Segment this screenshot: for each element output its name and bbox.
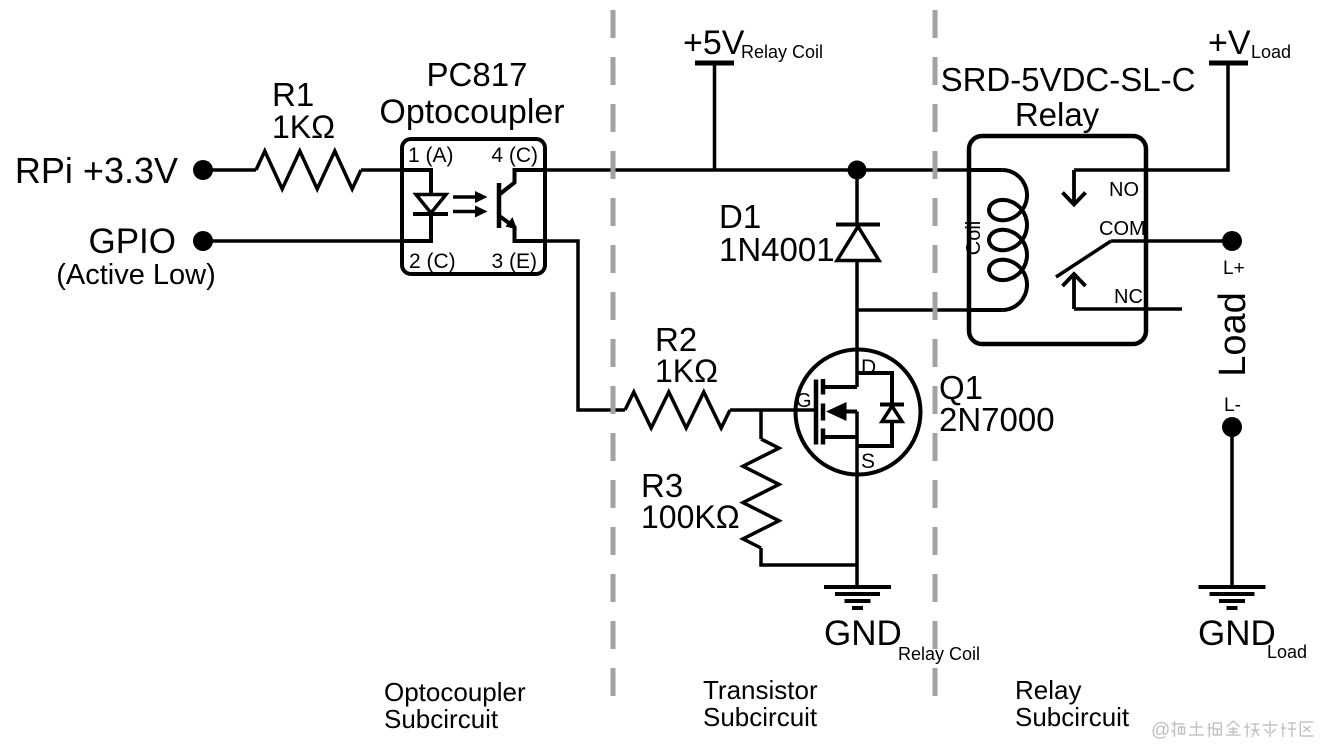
transistor Q1 drain stub (825, 385, 857, 389)
diode D1 1N4001 with labels (719, 198, 880, 268)
svg-text:100KΩ: 100KΩ (641, 499, 740, 535)
light emission arrow upper (453, 191, 488, 203)
svg-text:L+: L+ (1223, 258, 1245, 279)
svg-text:3 (E): 3 (E) (491, 250, 537, 273)
wire COM to L+ node (1111, 239, 1223, 243)
svg-text:SRD-5VDC-SL-C: SRD-5VDC-SL-C (941, 61, 1196, 98)
wire main rail optocoupler pin4 to relay coil (545, 168, 970, 172)
svg-text:R1: R1 (272, 76, 314, 113)
ground GND Load (1198, 587, 1307, 662)
svg-text:Optocoupler: Optocoupler (379, 93, 564, 131)
svg-text:Load: Load (1267, 642, 1307, 662)
svg-text:D: D (861, 356, 876, 379)
svg-text:1KΩ: 1KΩ (655, 353, 718, 389)
relay SRD-5VDC-SL-C title (941, 61, 1196, 133)
svg-text:RPi +3.3V: RPi +3.3V (15, 150, 178, 191)
svg-text:2 (C): 2 (C) (409, 250, 456, 273)
resistor R2 1KΩ with labels (625, 321, 730, 428)
relay K1 box (969, 136, 1146, 344)
power +V Load supply (1208, 24, 1291, 63)
op-amp U1 optocoupler PC817 box (402, 139, 545, 274)
transistor Q1 body diode (857, 373, 904, 446)
svg-text:@: @ (1151, 720, 1170, 741)
wire NO to box edge (1074, 168, 1146, 172)
svg-text:NO: NO (1109, 179, 1139, 201)
svg-text:4 (C): 4 (C) (491, 144, 538, 167)
wire NC stub (1074, 307, 1182, 311)
svg-text:GPIO: GPIO (88, 222, 176, 261)
svg-text:Load: Load (1251, 42, 1291, 62)
resistor R1 1KΩ with labels (256, 76, 361, 189)
svg-text:G: G (796, 390, 812, 412)
svg-text:GND: GND (824, 614, 902, 653)
svg-text:Relay: Relay (1015, 675, 1081, 705)
separator dashed line 1 (611, 10, 616, 705)
transistor Q1 body arrow (826, 402, 857, 421)
wire gate node down to R3 (759, 410, 763, 439)
wire internal LED cathode to pin 2 (402, 214, 431, 241)
svg-text:+V: +V (1208, 24, 1251, 62)
svg-text:GND: GND (1198, 614, 1276, 653)
wire junction down to D1 cathode (855, 170, 859, 224)
svg-text:D1: D1 (719, 198, 761, 235)
wire L- to ground (1230, 436, 1234, 586)
svg-text:2N7000: 2N7000 (939, 401, 1055, 438)
wire R1 to optocoupler pin 1 (361, 168, 404, 172)
transistor Q1 2N7000 circle (796, 350, 921, 475)
svg-text:Relay Coil: Relay Coil (898, 644, 980, 664)
label Relay Subcircuit (1015, 675, 1130, 732)
svg-text:Optocoupler: Optocoupler (384, 677, 526, 707)
power +5V Relay Coil supply (683, 24, 823, 170)
transistor Q1 gate bar (814, 380, 819, 445)
relay coil winding (963, 170, 1027, 310)
relay COM switch blade (1056, 218, 1146, 277)
node L- terminal (1222, 395, 1242, 437)
wire R3 bottom to source (761, 548, 857, 565)
wire drain tap to relay coil bottom (857, 308, 970, 312)
svg-text:+5V: +5V (683, 24, 745, 62)
svg-text:(Active Low): (Active Low) (56, 259, 216, 291)
node RPi +3.3V terminal with label (15, 150, 213, 191)
wire D1 anode to Q1 drain (855, 261, 859, 388)
svg-text:Relay Coil: Relay Coil (741, 42, 823, 62)
phototransistor of optocoupler (499, 170, 545, 241)
svg-text:Transistor: Transistor (703, 675, 818, 705)
label Optocoupler Subcircuit (384, 677, 526, 734)
svg-text:1KΩ: 1KΩ (272, 109, 335, 145)
light emission arrow lower (453, 206, 488, 218)
transistor Q1 reference labels (939, 369, 1055, 438)
svg-text:NC: NC (1114, 286, 1143, 308)
separator dashed line 2 (933, 10, 938, 705)
wire RPi node to R1 (211, 168, 256, 172)
svg-text:Load: Load (1212, 292, 1254, 377)
relay NO contact with arrow (1063, 170, 1140, 205)
label Transistor Subcircuit (703, 675, 818, 732)
svg-text:COM: COM (1099, 218, 1146, 240)
svg-text:1N4001: 1N4001 (719, 231, 835, 268)
wire +V down to NO rail (1146, 63, 1228, 170)
wire optocoupler pin3 down to R2 (545, 241, 625, 410)
resistor R3 100KΩ with labels (641, 439, 779, 548)
svg-text:Relay: Relay (1015, 96, 1100, 133)
svg-text:Subcircuit: Subcircuit (384, 704, 499, 734)
node GPIO terminal with label (56, 222, 216, 291)
svg-text:Subcircuit: Subcircuit (1015, 702, 1130, 732)
node L+ terminal (1222, 231, 1245, 279)
transistor Q1 channel bar segments (821, 379, 826, 445)
op-amp U1 optocoupler PC817 title (379, 56, 564, 131)
wire R2 to gate of Q1 (730, 408, 814, 412)
svg-text:S: S (861, 450, 875, 473)
LED diode of optocoupler (413, 195, 448, 215)
svg-text:Subcircuit: Subcircuit (703, 702, 818, 732)
wire GPIO to optocoupler pin 2 (211, 239, 404, 243)
wire Q1 source down to ground (855, 412, 859, 587)
relay NC contact with arrow (1063, 274, 1143, 309)
svg-text:1 (A): 1 (A) (408, 144, 454, 167)
transistor Q1 source stub (825, 435, 857, 439)
svg-text:Coil: Coil (963, 221, 985, 255)
ground GND Relay Coil (824, 587, 980, 664)
junction node main rail to D1/drain (848, 161, 867, 180)
wire internal LED anode (402, 170, 431, 194)
svg-text:L-: L- (1224, 395, 1241, 416)
svg-text:PC817: PC817 (427, 56, 528, 93)
transistor Q1 terminal labels D S G (796, 356, 876, 473)
